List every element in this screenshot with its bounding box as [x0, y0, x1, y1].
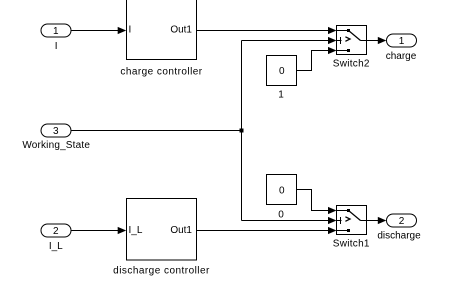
constant 0 (lower) [267, 175, 297, 221]
svg-text:Working_State: Working_State [22, 140, 90, 151]
svg-text:charge controller: charge controller [120, 67, 202, 78]
svg-text:Out1: Out1 [170, 25, 192, 36]
inport 2 (I_L) [41, 224, 71, 252]
svg-text:Switch1: Switch1 [333, 239, 370, 250]
wire inport1 to charge controller [72, 27, 127, 34]
svg-text:0: 0 [279, 66, 285, 77]
svg-text:2: 2 [399, 216, 405, 227]
wire Switch2 to outport charge [367, 37, 387, 44]
outport 2 (discharge) [377, 214, 421, 242]
svg-text:Switch2: Switch2 [333, 59, 370, 70]
wire inport2 to discharge controller [72, 227, 127, 234]
wire Working_State to junction [72, 130, 242, 132]
subsystem charge controller [120, 0, 202, 78]
svg-text:I: I [129, 25, 132, 36]
svg-text:0: 0 [279, 186, 285, 197]
outport 1 (charge) [386, 34, 417, 62]
wire control to Switch1 input 2 [242, 217, 337, 224]
svg-text:I: I [55, 41, 58, 52]
inport 3 (Working_State) [22, 124, 90, 151]
svg-text:1: 1 [278, 90, 284, 101]
svg-text:2: 2 [53, 226, 59, 237]
svg-text:I_L: I_L [49, 241, 63, 252]
wire discharge controller Out1 to Switch1 input 3 [197, 227, 337, 234]
svg-text:discharge: discharge [377, 231, 421, 242]
wire Switch1 to outport discharge [367, 217, 387, 224]
wire control vertical [241, 41, 243, 221]
svg-text:discharge controller: discharge controller [113, 266, 210, 277]
constant 0 (upper) [267, 56, 297, 101]
switch Switch1 [333, 206, 370, 250]
svg-text:0: 0 [278, 210, 284, 221]
wire constant upper to Switch2 input 3 [297, 47, 337, 71]
switch Switch2 [333, 26, 370, 70]
svg-text:1: 1 [53, 26, 59, 37]
wire constant lower to Switch1 input 1 [297, 190, 337, 215]
svg-text:3: 3 [53, 126, 59, 137]
junction dot [240, 129, 244, 133]
svg-text:1: 1 [399, 36, 405, 47]
svg-text:Out1: Out1 [170, 225, 192, 236]
wire charge controller Out1 to Switch2 input 1 [197, 27, 337, 34]
subsystem discharge controller [113, 199, 210, 277]
wire control to Switch2 input 2 [242, 37, 337, 44]
inport 1 (I) [41, 24, 71, 52]
svg-text:charge: charge [386, 51, 417, 62]
svg-text:I_L: I_L [129, 225, 143, 236]
